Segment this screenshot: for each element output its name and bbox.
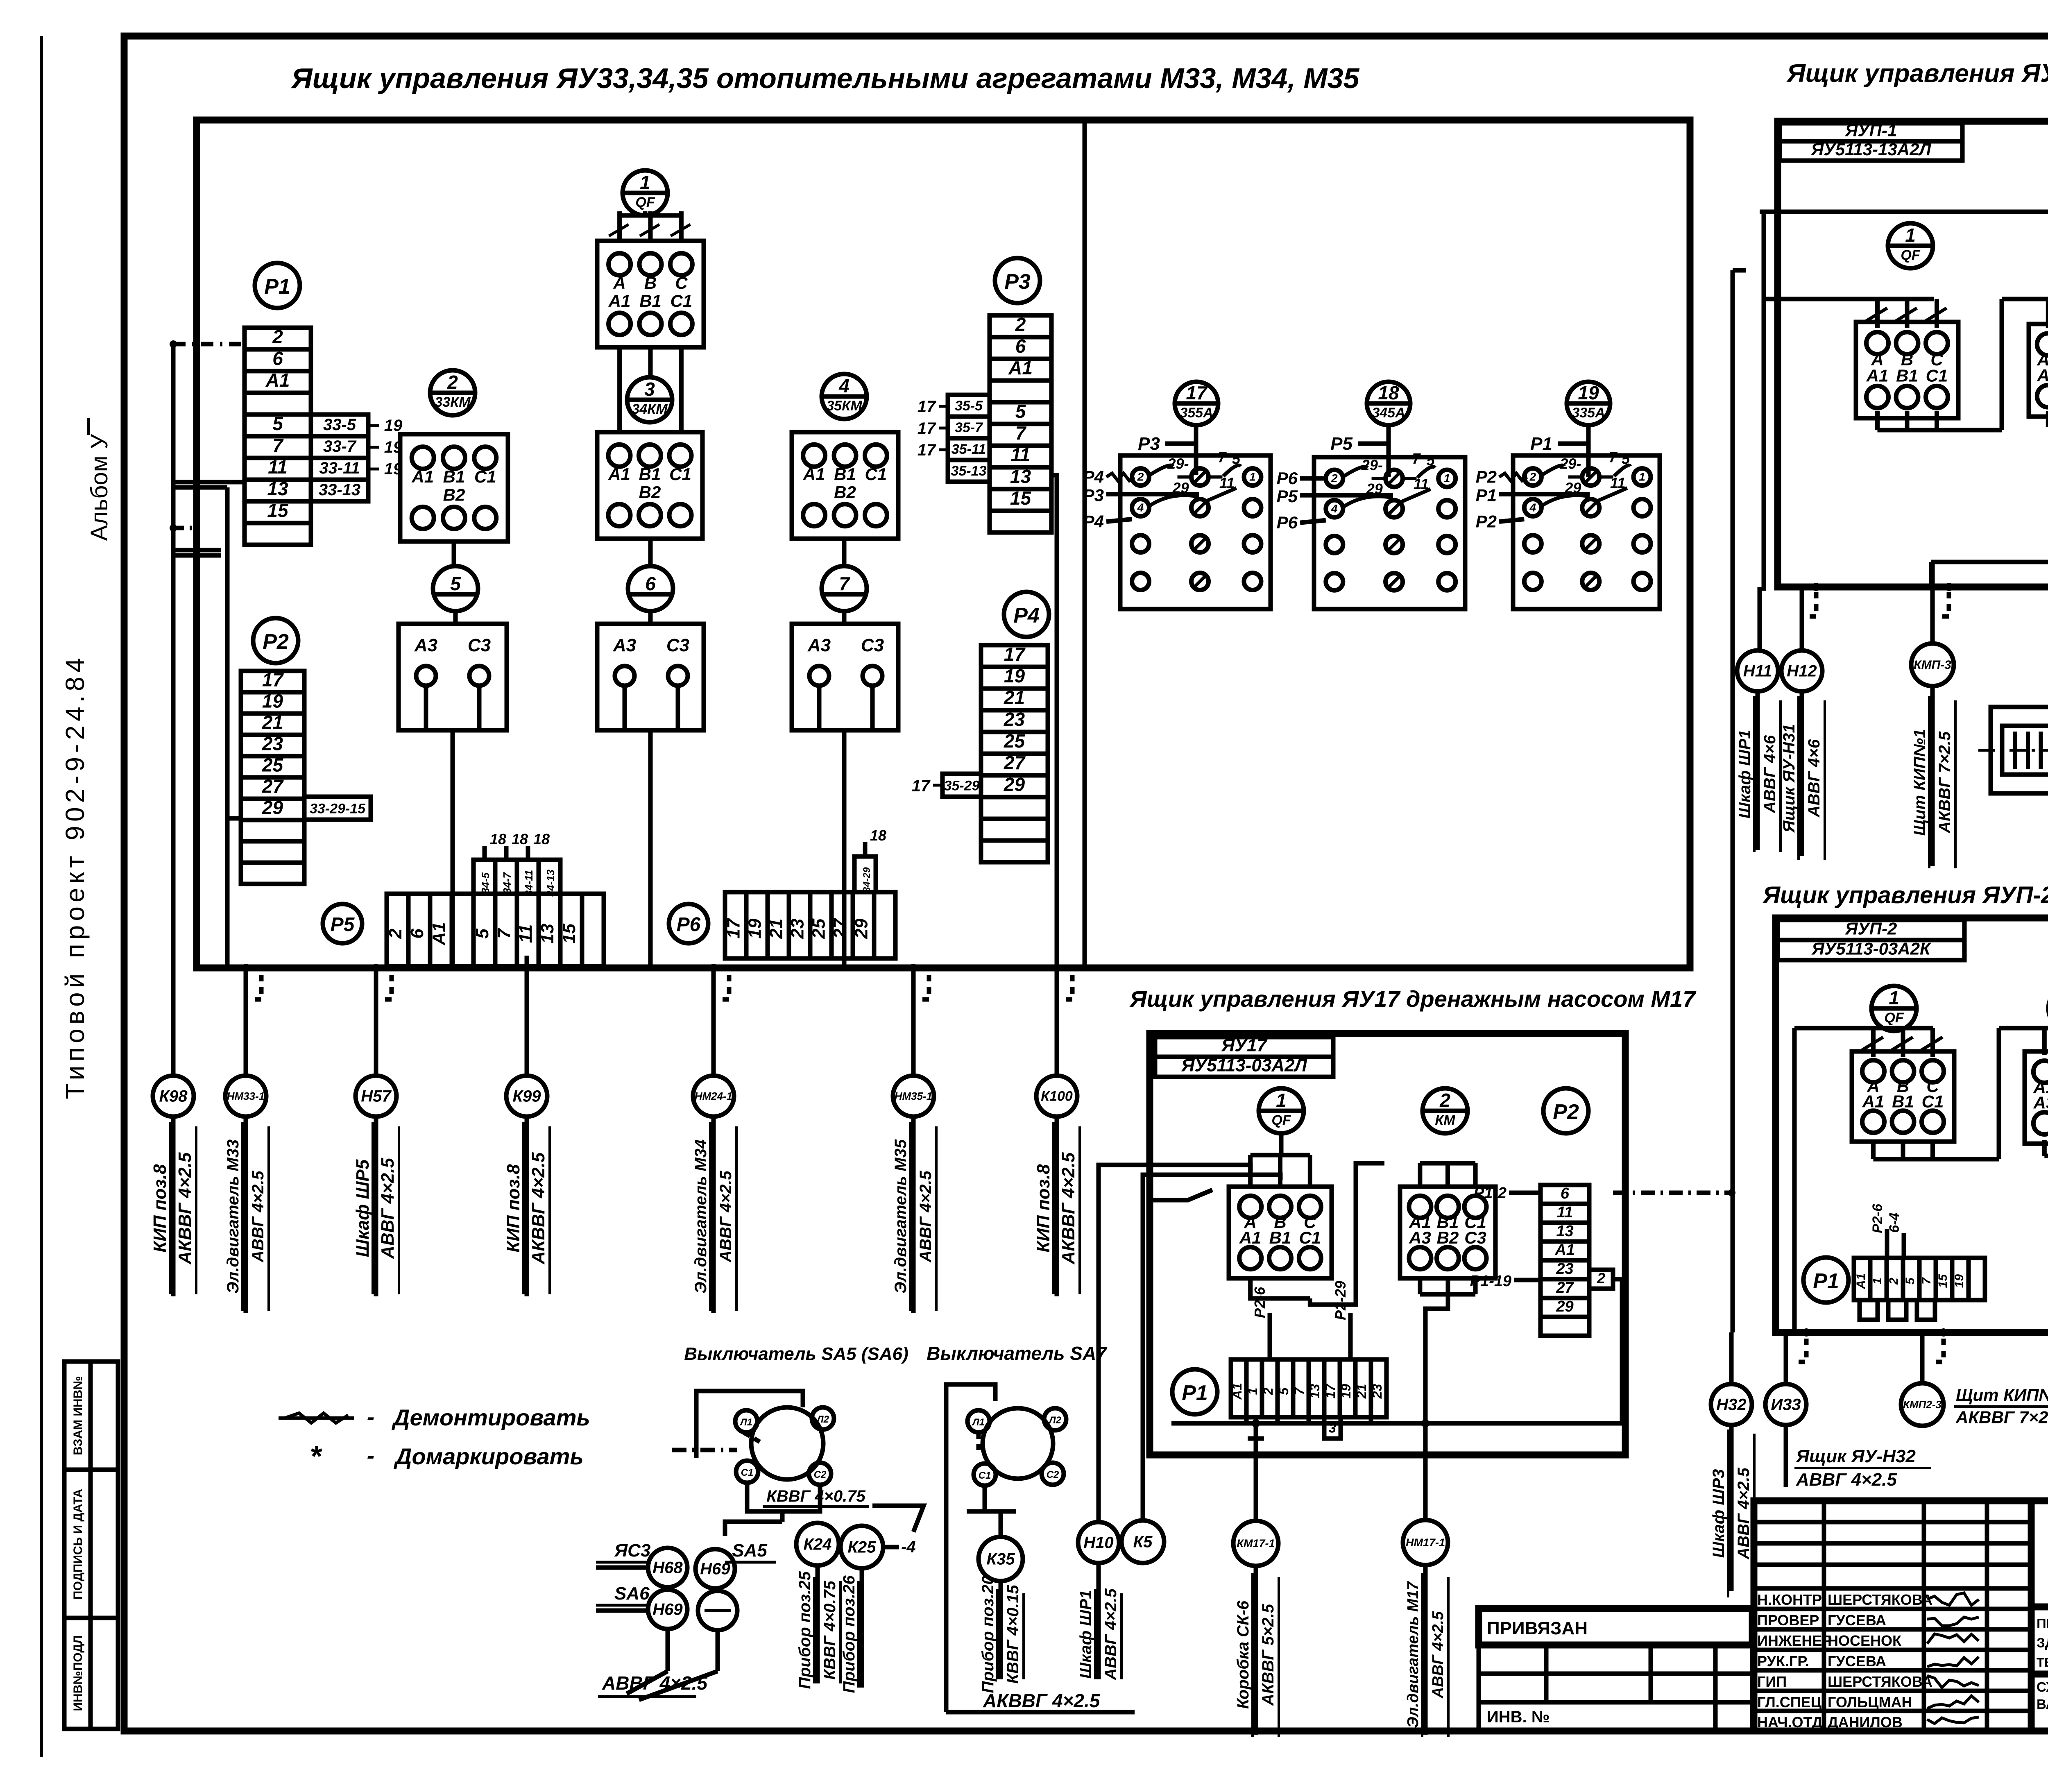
svg-text:5: 5 — [1903, 1277, 1917, 1285]
svg-text:Р1: Р1 — [1182, 1381, 1208, 1405]
wire K5 up — [1143, 1175, 1280, 1520]
svg-text:ТВ-80-1.6 и 4ЦЕНТРИФУГАМИ ОГШ-: ТВ-80-1.6 и 4ЦЕНТРИФУГАМИ ОГШ-631К-02 — [2037, 1655, 2048, 1670]
svg-text:11: 11 — [1610, 475, 1625, 492]
svg-text:С1: С1 — [1926, 366, 1948, 385]
svg-text:33-5: 33-5 — [323, 416, 356, 434]
breaker QF block (YaU17) — [1229, 1187, 1332, 1278]
drops to tags YaUP-2 — [1729, 1332, 1734, 1385]
svg-text:1: 1 — [1249, 471, 1256, 483]
wire KM17-1 up (YaU17) — [1254, 1439, 1258, 1521]
svg-text:-: - — [367, 1404, 375, 1430]
cable tag K25 — [840, 1526, 883, 1568]
svg-text:Р1: Р1 — [1813, 1269, 1839, 1293]
SA7 dashed drop — [976, 1432, 981, 1450]
tag stem wires SA7 — [999, 1581, 1003, 1679]
svg-text:Эл.двигатель М17: Эл.двигатель М17 — [1405, 1581, 1422, 1728]
svg-text:С3: С3 — [468, 635, 491, 655]
svg-text:6: 6 — [1561, 1185, 1570, 1202]
wires QF circle to block — [617, 211, 622, 241]
svg-text:23: 23 — [1370, 1384, 1384, 1399]
svg-text:2: 2 — [447, 372, 458, 393]
svg-text:Р1: Р1 — [1476, 486, 1497, 505]
svg-text:2: 2 — [272, 326, 283, 347]
breaker circle 1 QF (YaUP-1) — [1888, 223, 1933, 268]
cable tag KM17-1 — [1233, 1521, 1278, 1566]
svg-text:21: 21 — [1354, 1384, 1369, 1399]
svg-text:ГОЛЬЦМАН: ГОЛЬЦМАН — [1828, 1694, 1912, 1710]
svg-text:18: 18 — [1378, 382, 1399, 403]
svg-text:345А: 345А — [1372, 405, 1405, 421]
svg-text:С1: С1 — [1922, 1092, 1944, 1111]
svg-text:РУК.ГР.: РУК.ГР. — [1757, 1653, 1809, 1670]
svg-text:СХЕМА ПОДКЛЮЧЕНИЯ ЭЛЕКТРООБОРУ: СХЕМА ПОДКЛЮЧЕНИЯ ЭЛЕКТРООБОРУДО- — [2037, 1679, 2048, 1695]
rotary switch block 17 — [1120, 455, 1271, 609]
svg-text:АКВВГ 4×2.5: АКВВГ 4×2.5 — [528, 1152, 548, 1264]
svg-text:13: 13 — [1556, 1223, 1573, 1240]
svg-text:27: 27 — [830, 918, 850, 939]
svg-text:2: 2 — [1529, 471, 1536, 483]
svg-text:15: 15 — [1936, 1274, 1950, 1288]
svg-text:7: 7 — [839, 573, 850, 594]
svg-text:А1: А1 — [1239, 1228, 1262, 1247]
box YaU33 section — [197, 120, 1690, 968]
svg-text:2: 2 — [385, 929, 406, 939]
svg-text:А1: А1 — [803, 464, 825, 484]
SA5 terminal L1 — [735, 1410, 757, 1432]
svg-text:Н57: Н57 — [361, 1087, 392, 1106]
svg-text:Р6: Р6 — [1277, 469, 1298, 488]
P1 strip top refs (YaU17) — [1268, 1313, 1272, 1359]
stamp outline — [1754, 1501, 2048, 1731]
svg-text:К25: К25 — [847, 1538, 876, 1556]
svg-text:25: 25 — [262, 754, 284, 775]
P1 top refs (YaUP-2) — [1885, 1229, 1889, 1258]
svg-text:Н68: Н68 — [652, 1559, 683, 1577]
svg-text:Р5: Р5 — [1330, 434, 1352, 454]
svg-text:29: 29 — [262, 797, 283, 818]
svg-text:Н12: Н12 — [1787, 662, 1817, 680]
KM bottom bus (YaUP-1) — [2046, 411, 2048, 427]
svg-text:ШЕРСТЯКОВА: ШЕРСТЯКОВА — [1828, 1591, 1932, 1608]
breaker circle 1 QF — [623, 170, 668, 215]
svg-text:Р3: Р3 — [1004, 270, 1031, 294]
svg-text:А1: А1 — [1862, 1092, 1885, 1111]
svg-text:19: 19 — [745, 918, 765, 938]
drops into QF with breaker ticks (YaUP-1) — [1875, 299, 1880, 328]
svg-text:АКВВГ 4×2.5: АКВВГ 4×2.5 — [1058, 1152, 1078, 1264]
svg-text:29-: 29- — [1559, 455, 1581, 472]
svg-text:17: 17 — [1004, 643, 1026, 665]
breaker circle 1 QF (YaUP-2) — [1871, 986, 1917, 1031]
bus junction dots — [242, 964, 250, 972]
wire 35KM B2 to coil 7 — [842, 539, 847, 566]
svg-text:33-13: 33-13 — [319, 481, 360, 499]
svg-text:33КМ: 33КМ — [435, 394, 471, 410]
wire coil6 to box — [648, 611, 653, 624]
svg-text:5: 5 — [472, 929, 492, 939]
svg-text:АВВГ 4×2.5: АВВГ 4×2.5 — [249, 1170, 267, 1262]
svg-text:Л2: Л2 — [1048, 1415, 1061, 1426]
svg-text:1: 1 — [1905, 224, 1916, 246]
switch SA5 body — [751, 1407, 823, 1479]
wire QF to KM link (YaU17) — [1251, 1278, 1310, 1298]
wire to K24 — [725, 1522, 782, 1536]
svg-text:ПРОИЗВОДСТВЕННО-ВСПОМОГАТЕЛЬНО: ПРОИЗВОДСТВЕННО-ВСПОМОГАТЕЛЬНОЕ — [2037, 1616, 2048, 1631]
SA7 feed box outline — [946, 1384, 995, 1458]
svg-text:Демонтировать: Демонтировать — [392, 1405, 590, 1430]
svg-text:Коробка СК-6: Коробка СК-6 — [1234, 1600, 1252, 1709]
svg-text:4: 4 — [838, 375, 850, 396]
svg-text:15: 15 — [1010, 487, 1032, 509]
svg-text:К35: К35 — [986, 1550, 1015, 1568]
svg-text:Н10: Н10 — [1083, 1534, 1113, 1552]
svg-text:А3: А3 — [414, 635, 437, 655]
svg-text:2: 2 — [1261, 1387, 1275, 1395]
svg-text:17: 17 — [723, 918, 743, 938]
svg-text:2: 2 — [1137, 471, 1144, 483]
svg-text:18: 18 — [870, 827, 886, 844]
SA5 terminal L2 — [812, 1407, 834, 1430]
svg-text:А3: А3 — [2037, 366, 2048, 385]
cable tag N12 — [1781, 650, 1822, 691]
svg-text:АВВГ 4×2.5: АВВГ 4×2.5 — [1735, 1467, 1753, 1559]
strip P2 right box 2 (YaU17) — [1589, 1270, 1613, 1289]
svg-text:27: 27 — [1004, 752, 1026, 773]
svg-text:2: 2 — [1597, 1270, 1605, 1287]
KM bottom bus (YaUP-2) — [2042, 1140, 2047, 1156]
svg-text:21: 21 — [1004, 687, 1025, 708]
wire coil7 to box — [842, 611, 847, 624]
svg-text:Р1: Р1 — [264, 275, 290, 299]
svg-text:С1: С1 — [669, 464, 691, 484]
contactor KM block (YaU17) — [1400, 1187, 1495, 1278]
svg-text:АВВГ 4×2.5: АВВГ 4×2.5 — [1430, 1611, 1447, 1699]
svg-text:ИНЖЕНЕР: ИНЖЕНЕР — [1757, 1632, 1832, 1649]
svg-text:7: 7 — [272, 435, 284, 456]
link QF-KM (YaUP-1) — [1875, 411, 1880, 430]
lower-left table — [1479, 1645, 1752, 1731]
svg-text:18: 18 — [490, 831, 506, 847]
SA5 dash-dot link — [672, 1448, 737, 1452]
svg-text:В2: В2 — [834, 483, 856, 502]
svg-text:34-29: 34-29 — [861, 867, 872, 893]
svg-text:17: 17 — [912, 777, 931, 795]
svg-text:В1: В1 — [443, 467, 465, 486]
SA7 terminal C2 — [1042, 1463, 1064, 1485]
svg-text:НАЧ.ОТД: НАЧ.ОТД — [1757, 1714, 1822, 1731]
wires above KM block (YaU17) — [1418, 1163, 1422, 1187]
strip P5 top boxes 34-x — [473, 860, 495, 894]
svg-text:23: 23 — [1004, 709, 1025, 730]
svg-text:В1: В1 — [639, 291, 662, 310]
cable tag N33 — [1765, 1384, 1806, 1425]
svg-text:1: 1 — [1276, 1090, 1287, 1111]
svg-text:ЯУ5113-03А2Л: ЯУ5113-03А2Л — [1181, 1055, 1307, 1075]
svg-text:А1: А1 — [1230, 1383, 1244, 1400]
svg-text:А1: А1 — [608, 291, 631, 310]
contactor circle 3 34KM — [627, 377, 672, 422]
svg-text:1: 1 — [1889, 987, 1899, 1008]
svg-text:ПРИВЯЗАН: ПРИВЯЗАН — [1487, 1618, 1588, 1638]
cable tag N32 — [1711, 1384, 1752, 1425]
svg-text:Шкаф ШР5: Шкаф ШР5 — [353, 1159, 373, 1257]
wire SA7 C1 down to K35 — [985, 1486, 1001, 1537]
P1 strip drops to bus (YaU17) — [1244, 1417, 1249, 1423]
svg-text:ИНВ. №: ИНВ. № — [1487, 1708, 1550, 1726]
rotary switch block 19 — [1513, 455, 1660, 609]
rotary switch block 18 — [1314, 457, 1465, 609]
wires KM block down (YaU17) — [1418, 1278, 1422, 1294]
wire N33 down — [1784, 1425, 1788, 1487]
divider of YaU33 box — [1083, 120, 1087, 968]
svg-text:27: 27 — [262, 775, 284, 797]
relay P4 label — [1004, 592, 1049, 637]
svg-text:4: 4 — [1137, 501, 1144, 514]
svg-text:13: 13 — [267, 478, 288, 499]
switch circle 18 345A — [1367, 382, 1410, 425]
coil circle 5 — [433, 566, 478, 611]
svg-text:11: 11 — [516, 924, 536, 943]
svg-text:Р2: Р2 — [1476, 512, 1497, 531]
svg-text:15: 15 — [559, 923, 579, 943]
switch circle 17 355A — [1175, 382, 1218, 425]
relay P1 circle (YaUP-2) — [1803, 1257, 1849, 1303]
terminal strip P5 horizontal — [387, 894, 604, 966]
svg-text:С1: С1 — [474, 467, 496, 486]
cable tag KMP-3 — [1911, 643, 1954, 686]
svg-text:Ящик управления ЯУ17 дренажным: Ящик управления ЯУ17 дренажным насосом М… — [1129, 986, 1697, 1012]
dashdot from P2 strip right (YaU17) — [1613, 1191, 1731, 1195]
svg-text:Р1-2: Р1-2 — [1474, 1185, 1507, 1202]
svg-text:Н69: Н69 — [652, 1601, 683, 1619]
svg-text:В2: В2 — [1437, 1228, 1459, 1247]
svg-text:Щит КИП№1: Щит КИП№1 — [1911, 729, 1929, 836]
relay P1 label — [255, 263, 300, 308]
coil box A3 C3 of 34KM — [597, 624, 704, 730]
inner feed line YaUP-1 — [1760, 210, 2048, 214]
relay P2 label — [253, 618, 298, 663]
svg-text:А3: А3 — [613, 635, 636, 655]
label box YaU5113-13A2L — [1780, 141, 1962, 161]
svg-text:А1: А1 — [429, 922, 449, 945]
svg-text:Прибор поз.26: Прибор поз.26 — [840, 1575, 858, 1693]
svg-text:КИП поз.8: КИП поз.8 — [503, 1164, 523, 1253]
svg-text:Р3: Р3 — [1083, 486, 1104, 505]
svg-text:QF: QF — [1271, 1112, 1291, 1128]
svg-text:ДАНИЛОВ: ДАНИЛОВ — [1828, 1714, 1903, 1731]
svg-text:7: 7 — [1609, 449, 1618, 466]
svg-text:17: 17 — [918, 441, 936, 459]
relay P2 label (YaU17) — [1543, 1088, 1588, 1133]
svg-text:11: 11 — [1219, 475, 1235, 492]
svg-text:А1: А1 — [411, 467, 434, 486]
wire NM17-1 up (YaU17) — [1425, 1278, 1448, 1521]
svg-text:НМ35-1: НМ35-1 — [895, 1090, 932, 1102]
svg-text:АВВГ 4×2.5: АВВГ 4×2.5 — [602, 1672, 708, 1694]
label box YaU17 — [1155, 1037, 1333, 1057]
svg-text:ЯУ5113-13А2Л: ЯУ5113-13А2Л — [1811, 140, 1932, 159]
svg-text:АВВГ 4×2.5: АВВГ 4×2.5 — [1102, 1588, 1120, 1680]
wire pair stubs at left edge — [173, 548, 221, 553]
svg-text:34КМ: 34КМ — [632, 401, 668, 417]
svg-text:Выключатель SA5 (SA6): Выключатель SA5 (SA6) — [684, 1344, 908, 1364]
svg-text:Щит КИП№2: Щит КИП№2 — [1956, 1385, 2048, 1405]
svg-text:Р6: Р6 — [1277, 513, 1298, 532]
svg-text:33-7: 33-7 — [323, 437, 357, 455]
coil box A3 C3 of 35KM — [792, 624, 898, 730]
svg-text:В: В — [644, 273, 657, 292]
contactor KM block (YaUP-2) — [2025, 1051, 2048, 1144]
svg-text:АКВВГ 7×2.5: АКВВГ 7×2.5 — [1955, 1408, 2048, 1427]
svg-text:7: 7 — [494, 928, 514, 939]
svg-text:Л2: Л2 — [816, 1414, 829, 1425]
tag N10 — [1078, 1522, 1119, 1563]
svg-text:19: 19 — [1339, 1384, 1353, 1399]
svg-text:2: 2 — [1331, 472, 1338, 485]
svg-text:7: 7 — [1292, 1386, 1307, 1395]
svg-text:1: 1 — [1871, 1278, 1884, 1285]
box YaU17 — [1150, 1033, 1625, 1455]
svg-text:Р2: Р2 — [1476, 467, 1497, 487]
svg-text:К24: К24 — [803, 1536, 831, 1554]
wire 34KM B2 to coil 6 — [648, 539, 653, 566]
svg-text:КИП поз.8: КИП поз.8 — [150, 1164, 170, 1253]
svg-text:Шкаф ШР3: Шкаф ШР3 — [1710, 1469, 1728, 1558]
inner box bottom YaUP-1 — [1931, 560, 2048, 564]
svg-text:С: С — [675, 273, 688, 292]
label box YaU5113-03A2K — [1778, 940, 1964, 960]
svg-text:11: 11 — [1414, 476, 1429, 492]
svg-text:5: 5 — [1276, 1387, 1291, 1395]
svg-text:К5: К5 — [1133, 1533, 1153, 1551]
coil box A3 C3 of 33KM — [399, 624, 507, 730]
svg-text:С2: С2 — [1047, 1469, 1059, 1480]
svg-text:Прибор поз.25: Прибор поз.25 — [796, 1571, 814, 1689]
dashed removal hooks YaUP-1 — [1805, 592, 1816, 616]
svg-text:А1: А1 — [608, 464, 630, 484]
box YaUP-2 — [1776, 918, 2048, 1332]
svg-text:17: 17 — [918, 419, 936, 437]
svg-text:ИНВ№ПОДЛ: ИНВ№ПОДЛ — [71, 1635, 85, 1711]
svg-text:23: 23 — [262, 733, 283, 754]
svg-text:ПРОВЕР: ПРОВЕР — [1757, 1612, 1819, 1629]
svg-text:-: - — [367, 1442, 375, 1468]
svg-text:АВВГ 4×2.5: АВВГ 4×2.5 — [378, 1158, 398, 1259]
privyazan box — [1479, 1608, 1752, 1645]
breaker QF block (YaUP-1) — [1856, 322, 1958, 418]
heater block KK1 — [1991, 707, 2048, 793]
wire N10 up — [1099, 1165, 1251, 1522]
relay P6 label — [669, 904, 708, 943]
svg-text:АКВВГ 7×2.5: АКВВГ 7×2.5 — [1936, 731, 1954, 834]
svg-text:НОСЕНОК: НОСЕНОК — [1828, 1632, 1902, 1649]
stamp personnel columns — [1822, 1501, 1826, 1731]
svg-text:21: 21 — [766, 919, 786, 939]
svg-text:Р2-6: Р2-6 — [1870, 1203, 1885, 1233]
svg-text:В2: В2 — [443, 485, 465, 504]
svg-text:А3: А3 — [2033, 1093, 2048, 1112]
svg-text:35КМ: 35КМ — [826, 398, 862, 414]
link QF-KM (YaUP-2) — [1871, 1142, 1876, 1159]
svg-text:КМ17-1: КМ17-1 — [1237, 1537, 1275, 1550]
svg-text:33-11: 33-11 — [319, 459, 360, 477]
breaker QF block (YaUP-2) — [1852, 1051, 1954, 1142]
SA7 terminal C1 — [974, 1464, 996, 1486]
svg-text:5: 5 — [1015, 401, 1026, 422]
svg-text:Н69: Н69 — [700, 1560, 730, 1578]
svg-text:С2: С2 — [814, 1469, 827, 1480]
svg-text:6: 6 — [1015, 335, 1026, 357]
label box YaU5113-03A2L — [1155, 1057, 1333, 1077]
breaker pole ticks QF — [609, 224, 629, 236]
svg-text:ВАНИЯ. ЯЩИКОВ ЯУ 33, 34, 35,: ВАНИЯ. ЯЩИКОВ ЯУ 33, 34, 35, — [2037, 1697, 2048, 1712]
svg-text:АВВГ 4×6: АВВГ 4×6 — [1805, 739, 1823, 818]
svg-text:С1: С1 — [671, 291, 693, 310]
svg-text:НМ33-1: НМ33-1 — [227, 1090, 265, 1102]
wire 33KM B2 to coil 5 — [452, 541, 456, 566]
svg-text:НМ24-1: НМ24-1 — [695, 1090, 732, 1102]
dashed removal hooks YaUP-2 — [1795, 1339, 1806, 1362]
wire K99 from strip P5 — [525, 956, 529, 968]
cable tag NM17-1 — [1403, 1520, 1448, 1565]
P1 strip bottom box 3 (YaU17) — [1324, 1417, 1341, 1439]
svg-text:29-: 29- — [1167, 455, 1189, 472]
strip P3 side boxes 35-x — [948, 395, 990, 417]
svg-text:Эл.двигатель М34: Эл.двигатель М34 — [692, 1140, 710, 1294]
svg-text:Альбом У: Альбом У — [86, 433, 113, 541]
legend demontirovat — [285, 1413, 348, 1423]
svg-text:5: 5 — [450, 573, 461, 594]
svg-text:19: 19 — [1953, 1274, 1966, 1288]
svg-text:6-4: 6-4 — [1887, 1212, 1902, 1232]
svg-text:17: 17 — [1186, 382, 1208, 403]
svg-text:ГУСЕВА: ГУСЕВА — [1828, 1653, 1886, 1670]
svg-text:Типовой проект 902-9-24.84: Типовой проект 902-9-24.84 — [60, 654, 90, 1099]
svg-text:КВВГ 4×0.75: КВВГ 4×0.75 — [766, 1487, 865, 1505]
strip P1 side boxes 33-x — [311, 415, 368, 436]
SA7 terminal L2 — [1044, 1408, 1066, 1430]
relay P3 label — [995, 258, 1040, 303]
wire SA5 C1 down — [747, 1483, 774, 1511]
terminal strip P1 horizontal (YaU17) — [1231, 1359, 1386, 1417]
svg-text:АКВВГ 4×2.5: АКВВГ 4×2.5 — [983, 1690, 1101, 1711]
svg-text:АКВВГ 5×2.5: АКВВГ 5×2.5 — [1259, 1604, 1277, 1706]
svg-text:27: 27 — [1556, 1279, 1574, 1296]
wire SA5 C2 down — [791, 1485, 820, 1511]
svg-text:335А: 335А — [1572, 405, 1605, 421]
wire coil box2 down — [648, 730, 653, 968]
svg-text:С1: С1 — [741, 1467, 754, 1478]
svg-text:25: 25 — [1004, 730, 1026, 752]
svg-text:ЯУ17: ЯУ17 — [1221, 1035, 1268, 1056]
cable tag K100 — [1036, 1076, 1077, 1117]
svg-text:4: 4 — [1529, 501, 1536, 514]
svg-text:6: 6 — [407, 929, 427, 939]
terminal strip P6 horizontal — [725, 892, 895, 958]
svg-text:Прибор поз.20: Прибор поз.20 — [979, 1575, 997, 1693]
svg-text:29: 29 — [851, 918, 871, 939]
svg-text:Р2-6: Р2-6 — [1251, 1287, 1268, 1318]
svg-text:Выключатель SA7: Выключатель SA7 — [927, 1343, 1108, 1364]
svg-text:6: 6 — [645, 573, 656, 594]
svg-text:23: 23 — [1556, 1260, 1573, 1278]
svg-text:А3: А3 — [807, 635, 831, 655]
wire coil box3 down — [842, 730, 847, 968]
wire pair into P1 rows 13,15 — [173, 480, 245, 485]
cable tag K98 — [153, 1076, 194, 1117]
cable tag K35 — [979, 1537, 1023, 1581]
svg-text:А1: А1 — [1854, 1273, 1868, 1289]
